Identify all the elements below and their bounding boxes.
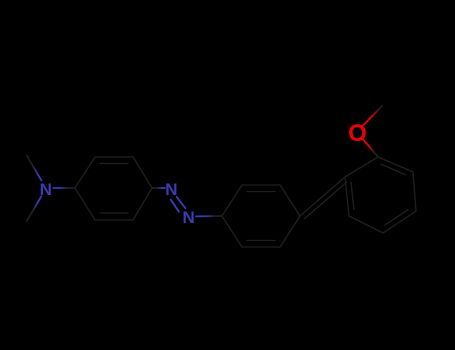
ring B double bond (bottom) [247, 240, 275, 242]
ring C double bond (left edge) [351, 183, 354, 210]
ring A double bond (bottom) [100, 212, 128, 214]
ring C double bond (bottom-right edge) [385, 210, 408, 225]
vinyl C=C double bond (ring B to ring C) [300, 177, 345, 216]
benzene ring C [345, 157, 416, 233]
bond N(CH3) lower [27, 196, 42, 221]
ring C double bond (top edge) [381, 164, 405, 174]
benzene ring A [75, 157, 152, 220]
benzene ring B [222, 185, 300, 247]
svg-text:N: N [165, 180, 177, 199]
bond O to methyl [363, 106, 383, 126]
bond O to ring C [363, 139, 379, 158]
ring A double bond (top) [100, 163, 128, 165]
svg-text:N: N [40, 180, 52, 199]
bond ring A to azo N1 [152, 187, 165, 189]
svg-text:N: N [183, 208, 195, 227]
bond N(CH3) upper [27, 156, 42, 181]
svg-text:O: O [348, 120, 367, 147]
ring B double bond (top) [247, 191, 275, 193]
azo N=N double bond [177, 197, 186, 208]
bond amine N to ring A [54, 187, 76, 189]
bond azo N2 to ring B [196, 215, 222, 217]
